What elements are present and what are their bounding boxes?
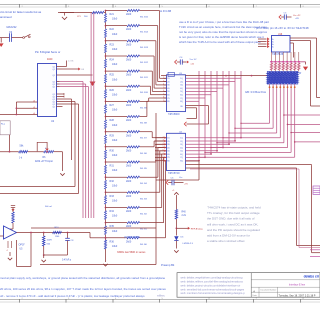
svg-text:74HC574N: 74HC574N <box>168 173 180 175</box>
svg-text:MAX232: MAX232 <box>7 25 18 29</box>
wire IC U3 left pin 1 <box>164 77 167 79</box>
connector J1 <box>0 121 10 135</box>
wire U6 right pin top <box>290 37 317 39</box>
svg-text:4: 4 <box>163 143 164 145</box>
wire IC U3 left pin 2 <box>164 81 167 83</box>
wire U2 pin y=96.5 <box>57 96 60 98</box>
resistor ladder row 12 (R32 10k / 2k00) <box>105 177 107 180</box>
svg-text:R31: R31 <box>110 165 115 168</box>
wire ladder row 6 to IC <box>140 85 151 87</box>
wire IC U4 right pin 6 <box>186 153 212 155</box>
svg-text:2k00: 2k00 <box>126 59 132 62</box>
svg-text:R23: R23 <box>110 43 115 46</box>
svg-text:R32: R32 <box>110 180 115 183</box>
svg-text:Q1: Q1 <box>53 75 55 77</box>
svg-text:10k0: 10k0 <box>112 184 118 187</box>
svg-text:REF Analog: REF Analog <box>191 227 203 230</box>
svg-text:9k1 B0: 9k1 B0 <box>140 244 148 246</box>
svg-text:9k1 B10: 9k1 B10 <box>140 92 149 94</box>
capacitor C5 <box>279 15 281 19</box>
svg-text:10k0: 10k0 <box>112 18 118 21</box>
resistor RP4 pullup <box>282 52 284 62</box>
wire IC U4 right pin 2 <box>186 140 236 142</box>
wire U2 pin y=75.0 <box>57 74 60 76</box>
resistor ladder terminator <box>105 238 107 240</box>
wire U4 clock corner <box>186 160 200 162</box>
svg-text:9k1 B12: 9k1 B12 <box>140 62 149 64</box>
svg-text:10k0: 10k0 <box>112 124 118 127</box>
wire ladder row 1 to IC <box>140 10 160 12</box>
wire bus vertical V4 <box>216 71 218 151</box>
svg-text:web: delabs.vergeltdriven.com/: web: delabs.vergeltdriven.com/dapj-analo… <box>181 276 244 280</box>
svg-text:mod at plain supply only, work: mod at plain supply only, workshops, or … <box>0 276 166 280</box>
svg-text:OP07: OP07 <box>19 244 26 247</box>
ground arrow below C9 <box>0 38 2 43</box>
svg-text:7: 7 <box>163 93 164 95</box>
wire U2 pin y=86.5 <box>57 86 60 88</box>
wire bus vertical V1 <box>198 71 200 161</box>
wire U2 left pins bus <box>16 101 37 103</box>
svg-text:Q1: Q1 <box>53 86 55 88</box>
wire ladder feed <box>60 12 92 14</box>
wire U2 pin y=104.0 <box>57 103 60 105</box>
wire analog out row <box>0 151 19 153</box>
resistor ladder row 3 (R23 10k / 2k00) <box>105 41 107 44</box>
resistor ladder row 8 (R28 10k / 2k00) <box>105 117 107 120</box>
svg-text:2k00: 2k00 <box>126 134 132 137</box>
resistor RP8 pullup <box>298 52 300 62</box>
wire IC U3 left pin 3 <box>164 84 167 86</box>
wire bus vertical V6 <box>228 71 230 144</box>
svg-text:4: 4 <box>7 250 8 252</box>
svg-text:LM336-2.5: LM336-2.5 <box>183 243 194 245</box>
svg-text:R30: R30 <box>110 149 115 152</box>
wire RN1 pin 2 to bus <box>272 84 274 128</box>
wire IC U4 right pin 1 <box>186 137 242 139</box>
svg-text:74HCT138: 74HCT138 <box>272 54 284 56</box>
svg-text:TTL Analog', for this held out: TTL Analog', for this held output voltag… <box>207 211 260 215</box>
wire IC U4 right pin 3 <box>186 143 230 145</box>
wire ladder row 3 to IC <box>140 40 156 42</box>
wire IC U3 lower pins loop <box>186 105 209 107</box>
wire U2 pin y=101.5 <box>57 101 60 103</box>
svg-text:web: sensitied-lab.com/meras-s: web: sensitied-lab.com/meras-schematics/… <box>181 287 245 291</box>
wire IC U4 right pin 8 <box>186 160 200 162</box>
svg-text:d A circuit for faster results: d A circuit for faster results but as <box>0 10 42 14</box>
trimpot R6 4k99 <box>37 142 47 151</box>
svg-text:Interface E few: Interface E few <box>289 284 305 287</box>
svg-text:which has the 7135 A-D to be u: which has the 7135 A-D to be used with a… <box>179 40 261 44</box>
svg-text:Document Number: Document Number <box>261 289 277 292</box>
svg-text:9k1 B1: 9k1 B1 <box>140 229 148 231</box>
wire U2 pin mid vertical <box>60 98 72 100</box>
resistor RP7 pullup <box>294 52 296 62</box>
svg-text:R22: R22 <box>110 28 115 31</box>
wire IC U3 top feed <box>186 75 269 77</box>
wire U6 input 1 <box>258 38 267 40</box>
wire IC U3 left pin 4 <box>164 87 167 89</box>
resistor ladder row 15 (R35 10k / 2k00) <box>105 223 107 226</box>
wire U6 input 4 <box>258 46 267 48</box>
resistor RP3 pullup <box>278 52 280 62</box>
wire U2 pin stub c <box>60 106 63 108</box>
svg-text:2k00: 2k00 <box>126 28 132 31</box>
wire ladder row 10 to IC <box>140 146 155 148</box>
resistor network RN1 <box>267 72 298 85</box>
svg-text:2k00: 2k00 <box>126 43 132 46</box>
resistor RP2 pullup <box>274 52 276 62</box>
wire U2 pin y=81.5 <box>57 81 60 83</box>
svg-text:+5V: +5V <box>184 184 188 186</box>
svg-text:9k1 B8: 9k1 B8 <box>140 123 148 125</box>
svg-text:8: 8 <box>163 97 164 99</box>
frame bottom ruler <box>0 299 320 301</box>
wire ladder row 11 to IC <box>140 161 157 163</box>
wire IC U4 left pin 4 <box>155 147 167 149</box>
svg-text:10k0: 10k0 <box>112 78 118 81</box>
wire ladder row 9 to IC <box>140 131 153 133</box>
svg-text:R40: R40 <box>182 212 187 214</box>
wire IC U3 left pin 6 <box>164 94 167 96</box>
wire bus vertical V2 <box>204 71 206 157</box>
wire IC U4 right pin 4 <box>186 147 224 149</box>
svg-text:2k00: 2k00 <box>126 74 132 77</box>
svg-text:4040: 4040 <box>47 58 53 61</box>
svg-text:R33: R33 <box>110 195 115 198</box>
resistor ladder row 11 (R31 10k / 2k00) <box>105 162 107 165</box>
wire bus vertical V3 <box>210 71 212 154</box>
svg-text:2k00: 2k00 <box>126 13 132 16</box>
op-amp U5 OP07 <box>4 226 17 239</box>
svg-text:10k0: 10k0 <box>112 169 118 172</box>
wire RN1 pin 7 to bus <box>290 84 292 152</box>
wire IC U4 right pin 5 <box>186 150 218 152</box>
wire U3 pin loop inner <box>186 107 197 109</box>
wire IC U3 left pin 5 <box>164 90 167 92</box>
svg-text:330Rs two 560K in series: 330Rs two 560K in series <box>117 251 146 254</box>
wire IC U4 out pin 11 <box>186 164 312 166</box>
svg-text:C OS: C OS <box>68 61 74 63</box>
op-amp power pins <box>7 241 9 248</box>
svg-text:2: 2 <box>163 136 164 138</box>
wire IC U4 left pin 1 <box>155 137 167 139</box>
wire box right edge <box>155 113 157 265</box>
wire U6 right pin 2 <box>290 40 311 42</box>
wire RN1 pin 5 to bus <box>283 84 285 143</box>
svg-text:10k0: 10k0 <box>112 230 118 233</box>
svg-text:10k0: 10k0 <box>112 215 118 218</box>
svg-text:10k0: 10k0 <box>112 245 118 248</box>
svg-text:10k0: 10k0 <box>112 63 118 66</box>
svg-text:20 ohms, 100 series 20 kilo oh: 20 ohms, 100 series 20 kilo ohms, 98 a 1… <box>0 287 166 291</box>
clock input arrow <box>184 122 186 126</box>
svg-text:6: 6 <box>163 150 164 152</box>
wire IC U4 left pin 3 <box>155 143 167 145</box>
svg-text:3: 3 <box>163 140 164 142</box>
trimpot R8 offset <box>11 205 15 207</box>
wire U2 pin y=84.0 <box>57 83 60 85</box>
wire U2 pin long loop L1 <box>60 101 76 103</box>
wire bus vertical B <box>60 83 86 85</box>
svg-text:2k00: 2k00 <box>126 210 132 213</box>
wire RN1 pin 3 to bus <box>276 84 278 133</box>
wire IC U3 right pin 7 bus <box>186 97 206 99</box>
svg-text:2k00: 2k00 <box>126 180 132 183</box>
svg-text:8: 8 <box>163 156 164 158</box>
wire U2 pin stub a <box>60 93 65 95</box>
resistor RP6 pullup <box>290 52 292 62</box>
resistor ladder row 1 (R21 10k / 2k00) <box>105 11 107 14</box>
resistor ladder row 14 (R34 10k / 2k00) <box>105 208 107 211</box>
wire IC U4 left pin 8 <box>155 160 167 162</box>
svg-text:9k1 B14: 9k1 B14 <box>140 32 149 34</box>
wire IC U3 right pin 2 bus <box>186 81 236 83</box>
svg-text:5: 5 <box>163 87 164 89</box>
wire IC U3 left pin 7 <box>164 97 167 99</box>
svg-text:2: 2 <box>163 77 164 79</box>
svg-text:3: 3 <box>163 80 164 82</box>
wire bus vertical V5 <box>222 71 224 148</box>
svg-text:F(+): F(+) <box>1 124 5 126</box>
svg-text:9k1 B5: 9k1 B5 <box>140 168 148 170</box>
wire IC U3 right pin 5 bus <box>186 90 218 92</box>
svg-text:+8V: +8V <box>295 18 299 20</box>
wire out inner 3 <box>190 168 299 170</box>
svg-text:uF - remove 3 zeros 470 nF - a: uF - remove 3 zeros 470 nF - add decimal… <box>0 294 145 298</box>
svg-text:R28: R28 <box>110 119 115 122</box>
capacitor C8 0.47u <box>67 232 69 234</box>
wire bus vertical E <box>93 13 95 219</box>
resistor ladder row 13 (R33 10k / 2k00) <box>105 192 107 195</box>
svg-text:5: 5 <box>163 146 164 148</box>
svg-text:0.47uF p: 0.47uF p <box>62 259 72 261</box>
svg-text:the DST GND, due with it all r: the DST GND, due with it all ratio of <box>207 217 255 221</box>
wire U2 pin y=99.0 <box>57 98 60 100</box>
svg-text:Vcc 5V: Vcc 5V <box>190 59 197 61</box>
wire ladder row 12 to IC <box>140 176 158 178</box>
svg-text:9k1 B15: 9k1 B15 <box>140 17 149 19</box>
wire REF Analog tap <box>176 227 188 229</box>
wire U6 right pin 3 <box>290 42 294 44</box>
wire ladder row 13 to IC <box>140 191 160 193</box>
svg-text:GB: 3 D Bus Pow: GB: 3 D Bus Pow <box>245 90 266 94</box>
wire bus vertical D <box>90 13 92 219</box>
wire to gnd <box>60 151 63 153</box>
resistor RP1 pullup <box>271 52 273 62</box>
ground arrow resistor rail <box>303 61 306 63</box>
wire ladder row 15 to IC <box>140 222 164 224</box>
svg-text:will ohm work, i used DC as it: will ohm work, i used DC as it was OK, <box>207 222 259 226</box>
ground arrow R9 <box>43 255 45 258</box>
svg-text:9k1 B9: 9k1 B9 <box>140 107 148 109</box>
svg-text:not be very good, also do note: not be very good, also do note that the … <box>179 30 268 34</box>
resistor ladder row 4 (R24 10k / 2k00) <box>105 56 107 59</box>
wire U2 pin y=94.0 <box>57 93 60 95</box>
svg-text:9: 9 <box>163 100 164 102</box>
svg-text:R36: R36 <box>110 240 115 243</box>
wire bus vertical V7 <box>234 71 236 141</box>
wire IC U4 left pin 5 <box>155 150 167 152</box>
wire IC U3 right pin 4 bus <box>186 87 224 89</box>
wire ladder row 7 to IC <box>140 100 149 102</box>
svg-text:Q1: Q1 <box>53 69 55 71</box>
svg-text:web: members.fortunet/circuits: web: members.fortunet/circuits-corner/an… <box>181 291 246 295</box>
frame top ruler <box>0 4 320 6</box>
svg-text:10k0: 10k0 <box>112 48 118 51</box>
svg-text:9: 9 <box>163 159 164 161</box>
op IC U3 74HC590 <box>167 75 186 112</box>
svg-text:is not given for that, refer t: is not given for that, refer to the del9… <box>179 35 264 39</box>
connector X2 right edge mid <box>313 186 320 194</box>
wire U2 pin y=66.5 <box>57 66 60 68</box>
wire box bottom edge <box>40 264 156 266</box>
svg-text:6: 6 <box>163 90 164 92</box>
wire U6 input 3 <box>258 43 267 45</box>
wire ladder row 8 to IC <box>140 116 147 118</box>
svg-text:millisec: millisec <box>157 294 166 297</box>
svg-text:10k0: 10k0 <box>112 33 118 36</box>
wire IC U4 right pin 7 <box>186 156 206 158</box>
resistor ladder row 7 (R27 10k / 2k00) <box>105 101 107 104</box>
wire bus vertical C <box>60 86 89 88</box>
resistor R20 feed <box>92 11 104 13</box>
svg-text:2k00: 2k00 <box>126 165 132 168</box>
svg-text:2k00: 2k00 <box>126 89 132 92</box>
svg-text:Date:: Date: <box>253 294 258 297</box>
resistor ladder row 16 (R36 10k / 2k00) <box>105 237 107 239</box>
svg-text:9k1 B13: 9k1 B13 <box>140 47 149 49</box>
svg-text:(10k BU MSB: (10k BU MSB <box>124 236 139 239</box>
svg-text:delabs cir: delabs cir <box>304 274 320 278</box>
svg-text:10k0: 10k0 <box>112 109 118 112</box>
wire ladder row 16 to IC <box>140 237 166 239</box>
resistor ladder row 9 (R29 10k / 2k00) <box>105 132 107 135</box>
op IC U6 74HCT138 <box>272 36 291 53</box>
svg-text:9k1 B3: 9k1 B3 <box>140 198 148 200</box>
svg-text:U16: U16 <box>278 34 283 36</box>
feedback loop <box>30 233 32 267</box>
svg-text:Vcc+22: Vcc+22 <box>293 15 301 17</box>
svg-text:R24: R24 <box>110 59 115 62</box>
wire ladder row 2 to IC <box>140 25 158 27</box>
svg-text:to IN LSB: to IN LSB <box>160 9 171 13</box>
resistor R40 2.2k <box>175 210 177 220</box>
switch S1 <box>23 37 25 39</box>
svg-text:4k99 +0? Trimpot: 4k99 +0? Trimpot <box>35 160 53 163</box>
wire IC U4 left pin 6 <box>155 153 167 155</box>
diode D6 LM336-2.5 <box>174 236 178 240</box>
wire IC U4 out pin 12 <box>186 167 297 169</box>
svg-text:R26: R26 <box>110 89 115 92</box>
power arrow VSS <box>60 74 93 76</box>
power +5V arrow top-left <box>58 12 74 14</box>
wire U2 clock out <box>60 66 67 68</box>
ground arrow op-amp <box>9 252 11 256</box>
svg-text:7: 7 <box>163 153 164 155</box>
svg-text:Preamp Bit: Preamp Bit <box>161 263 175 267</box>
svg-text:9k1 B7: 9k1 B7 <box>140 138 148 140</box>
wire bus vertical V8 <box>240 71 242 138</box>
wire ladder row 4 to IC <box>140 55 155 57</box>
wire RN1 pin 4 to bus <box>279 84 281 138</box>
svg-text:9k1 B11: 9k1 B11 <box>140 77 149 79</box>
wire IC U4 left pin 7 <box>155 156 167 158</box>
svg-text:use a D to A of your Choice, i: use a D to A of your Choice, i put a few… <box>179 20 269 24</box>
svg-text:pin 8 GND, pin 16 +5V to -5V f: pin 8 GND, pin 16 +5V to -5V for 74HCT13… <box>256 26 309 30</box>
svg-text:4: 4 <box>163 84 164 86</box>
svg-text:Pin 8 Digital Sens or: Pin 8 Digital Sens or <box>35 50 60 54</box>
svg-text:a stable when strobed offset: a stable when strobed offset <box>207 239 245 243</box>
svg-text:A: A <box>253 290 255 294</box>
svg-text:TI-9K circuit as an example he: TI-9K circuit as an example here, it wil… <box>179 25 267 29</box>
title block frame <box>177 273 320 298</box>
svg-text:2k00: 2k00 <box>126 119 132 122</box>
wire IC U3 right pin 1 bus <box>186 77 242 79</box>
svg-text:web: delabs.relfrten.com/del-f: web: delabs.relfrten.com/del-files-analo… <box>181 280 244 284</box>
svg-text:2k00: 2k00 <box>126 104 132 107</box>
wire bus vertical A <box>60 81 84 83</box>
wire RN1 pin 1 to bus <box>269 84 271 123</box>
wire U2 pin y=69.0 <box>57 68 60 70</box>
svg-text:Tuesday, Sep 18, 2007 2:21:18: Tuesday, Sep 18, 2007 2:21:18 P <box>279 294 316 297</box>
svg-text:10k0: 10k0 <box>112 154 118 157</box>
wire U2 pin stub b <box>60 96 65 98</box>
bus common rail <box>270 61 303 63</box>
svg-text:add from a DM-12-5V source for: add from a DM-12-5V source for <box>207 234 250 238</box>
svg-text:2k00: 2k00 <box>126 149 132 152</box>
wire U2 reset <box>60 68 79 70</box>
svg-text:R25: R25 <box>110 74 115 77</box>
svg-text:10k0: 10k0 <box>112 94 118 97</box>
capacitor C6 under U4 <box>166 180 168 184</box>
svg-text:100R: 100R <box>47 240 53 242</box>
wire RN1 pin 8 to bus <box>294 84 296 157</box>
resistor R10 1M0 <box>53 231 62 233</box>
wire IC U3 right pin 8 bus <box>186 100 200 102</box>
wire IC U4 left pin 2 <box>155 140 167 142</box>
wire IC U3 left pin 8 <box>164 100 167 102</box>
wire box top edge <box>31 227 156 229</box>
wire IC U3 right pin 3 bus <box>186 84 230 86</box>
ground arrow ref chain <box>174 250 178 252</box>
resistor ladder row 6 (R26 10k / 2k00) <box>105 86 107 89</box>
svg-text:9k1 B2: 9k1 B2 <box>140 214 148 216</box>
wire IC U3 right pin 6 bus <box>186 94 212 96</box>
svg-text:5k6 ref: 5k6 ref <box>45 205 52 208</box>
wire U2 pin long loop L2 <box>60 103 79 105</box>
svg-text:'74HC574 has tri-state outputs: '74HC574 has tri-state outputs, and held <box>207 206 261 210</box>
svg-text:74HC590N: 74HC590N <box>168 114 180 116</box>
svg-text:Off: Off <box>81 69 84 71</box>
wire U6 input 2 <box>258 41 267 43</box>
connector X3 right edge bottom <box>310 249 320 251</box>
wire RN1 pin 6 to bus <box>287 84 289 148</box>
svg-text:Q1: Q1 <box>53 106 55 108</box>
wire ladder row 14 to IC <box>140 207 162 209</box>
svg-text:R21: R21 <box>110 13 115 16</box>
resistor R9 100k <box>43 232 45 234</box>
wire op-amp output <box>17 232 91 234</box>
power +5V arrow ref chain <box>174 193 178 195</box>
op IC U2 CD4040 <box>38 64 57 117</box>
wire fan exits right <box>284 114 320 116</box>
wire U2 pin y=106.5 <box>57 106 60 108</box>
capacitor C4 <box>175 60 177 64</box>
svg-text:2k00: 2k00 <box>126 240 132 243</box>
svg-text:10k0: 10k0 <box>112 200 118 203</box>
svg-text:annnieed: annnieed <box>0 15 12 19</box>
svg-text:R29: R29 <box>110 134 115 137</box>
